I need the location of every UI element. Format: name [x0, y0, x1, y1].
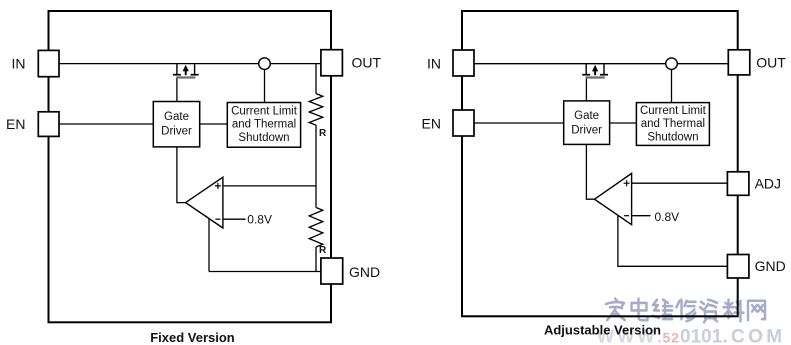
wire gate driver to current limit	[200, 123, 228, 125]
block gate driver (adj)	[564, 101, 610, 144]
svg-text:IN: IN	[427, 55, 441, 71]
op-amp U2 error amplifier (adj)	[595, 173, 632, 224]
resistor R1	[309, 94, 323, 126]
svg-text:ADJ: ADJ	[755, 176, 781, 192]
wire ground feedback (adj)	[618, 216, 728, 267]
op-amp plus input marker	[215, 183, 221, 189]
wire EN to gate driver	[59, 123, 153, 125]
wire divider middle	[315, 125, 317, 208]
block current limit and thermal shutdown (adj)	[636, 103, 709, 146]
watermark chinese text 家电维修资料网	[606, 299, 765, 323]
svg-text:Fixed Version: Fixed Version	[150, 330, 235, 345]
wire ground feedback	[208, 219, 210, 272]
wire error amp output to gate driver	[177, 147, 186, 203]
svg-text:GND: GND	[349, 264, 380, 280]
wire feedback divider top	[315, 64, 317, 94]
pin GND (fixed)	[321, 258, 343, 284]
svg-text:Shutdown: Shutdown	[647, 132, 698, 144]
svg-text:Driver: Driver	[571, 124, 602, 136]
block gate driver (fixed)	[153, 102, 199, 147]
pin IN (adj)	[453, 50, 474, 76]
pin EN (adj)	[453, 110, 474, 136]
svg-text:EN: EN	[422, 115, 441, 131]
wire bottom rail to GND	[209, 271, 321, 273]
wire 0.8V reference stub (adj)	[632, 215, 651, 217]
wire 0.8V reference stub	[223, 218, 246, 220]
pin ADJ	[727, 172, 749, 196]
svg-text:Adjustable Version: Adjustable Version	[544, 323, 661, 338]
svg-text:OUT: OUT	[352, 55, 382, 71]
wire current-limit sense stem	[264, 64, 266, 103]
wire IN rail (adj)	[474, 63, 728, 65]
pin EN (fixed)	[38, 112, 59, 137]
svg-text:and Thermal: and Thermal	[232, 119, 296, 131]
wire MOSFET gate to driver (adj)	[585, 78, 587, 101]
svg-text:Shutdown: Shutdown	[238, 132, 289, 144]
svg-text:IN: IN	[12, 55, 26, 71]
node output sense circle	[259, 58, 271, 70]
svg-text:Current Limit: Current Limit	[640, 105, 707, 117]
transistor pass PMOS (adjustable)	[582, 64, 608, 78]
svg-text:Gate: Gate	[164, 111, 189, 123]
svg-text:R: R	[319, 128, 327, 139]
svg-text:Gate: Gate	[574, 110, 599, 122]
IC outline (adjustable version)	[462, 11, 738, 316]
transistor pass PMOS (fixed)	[173, 64, 199, 78]
pin IN (fixed)	[38, 50, 59, 76]
op-amp minus input marker (adj)	[624, 215, 629, 217]
IC outline (fixed version)	[49, 11, 332, 322]
svg-text:R: R	[319, 245, 327, 256]
svg-text:EN: EN	[6, 116, 25, 132]
pin OUT (adj)	[728, 50, 750, 75]
block current limit and thermal shutdown (fixed)	[227, 103, 300, 148]
wire divider bottom	[315, 247, 317, 272]
svg-text:0.8V: 0.8V	[655, 210, 680, 224]
wire error amp output to gate driver (adj)	[586, 144, 594, 199]
wire current-limit sense stem (adj)	[671, 64, 673, 103]
wire MOSFET gate to driver	[176, 78, 178, 102]
resistor R2	[309, 208, 323, 248]
op-amp plus input marker (adj)	[624, 180, 630, 186]
svg-text:GND: GND	[755, 258, 786, 274]
wire IN rail	[59, 63, 321, 65]
node output sense circle (adj)	[666, 58, 678, 70]
wire EN to gate driver (adj)	[474, 122, 564, 124]
svg-text:OUT: OUT	[756, 55, 786, 71]
svg-text:0.8V: 0.8V	[247, 213, 272, 227]
wire error amp + input to ADJ pin	[632, 182, 728, 184]
pin GND (adj)	[727, 255, 749, 279]
svg-text:Current Limit: Current Limit	[231, 106, 298, 118]
wire gate driver to current limit (adj)	[610, 122, 637, 124]
op-amp U1 error amplifier	[186, 177, 223, 228]
svg-text:and Thermal: and Thermal	[641, 118, 705, 130]
pin OUT (fixed)	[321, 50, 343, 76]
svg-text:Driver: Driver	[161, 125, 192, 137]
wire error amp + input	[223, 185, 316, 187]
op-amp minus input marker	[215, 218, 220, 220]
